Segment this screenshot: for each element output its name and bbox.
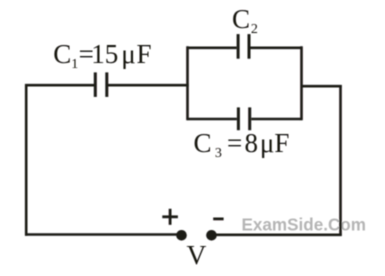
svg-text:C3=8μF: C3=8μF [194, 128, 290, 161]
svg-text:C1=15μF: C1=15μF [53, 39, 151, 72]
svg-text:V: V [187, 239, 207, 270]
svg-text:ExamSide.Com: ExamSide.Com [242, 215, 366, 234]
